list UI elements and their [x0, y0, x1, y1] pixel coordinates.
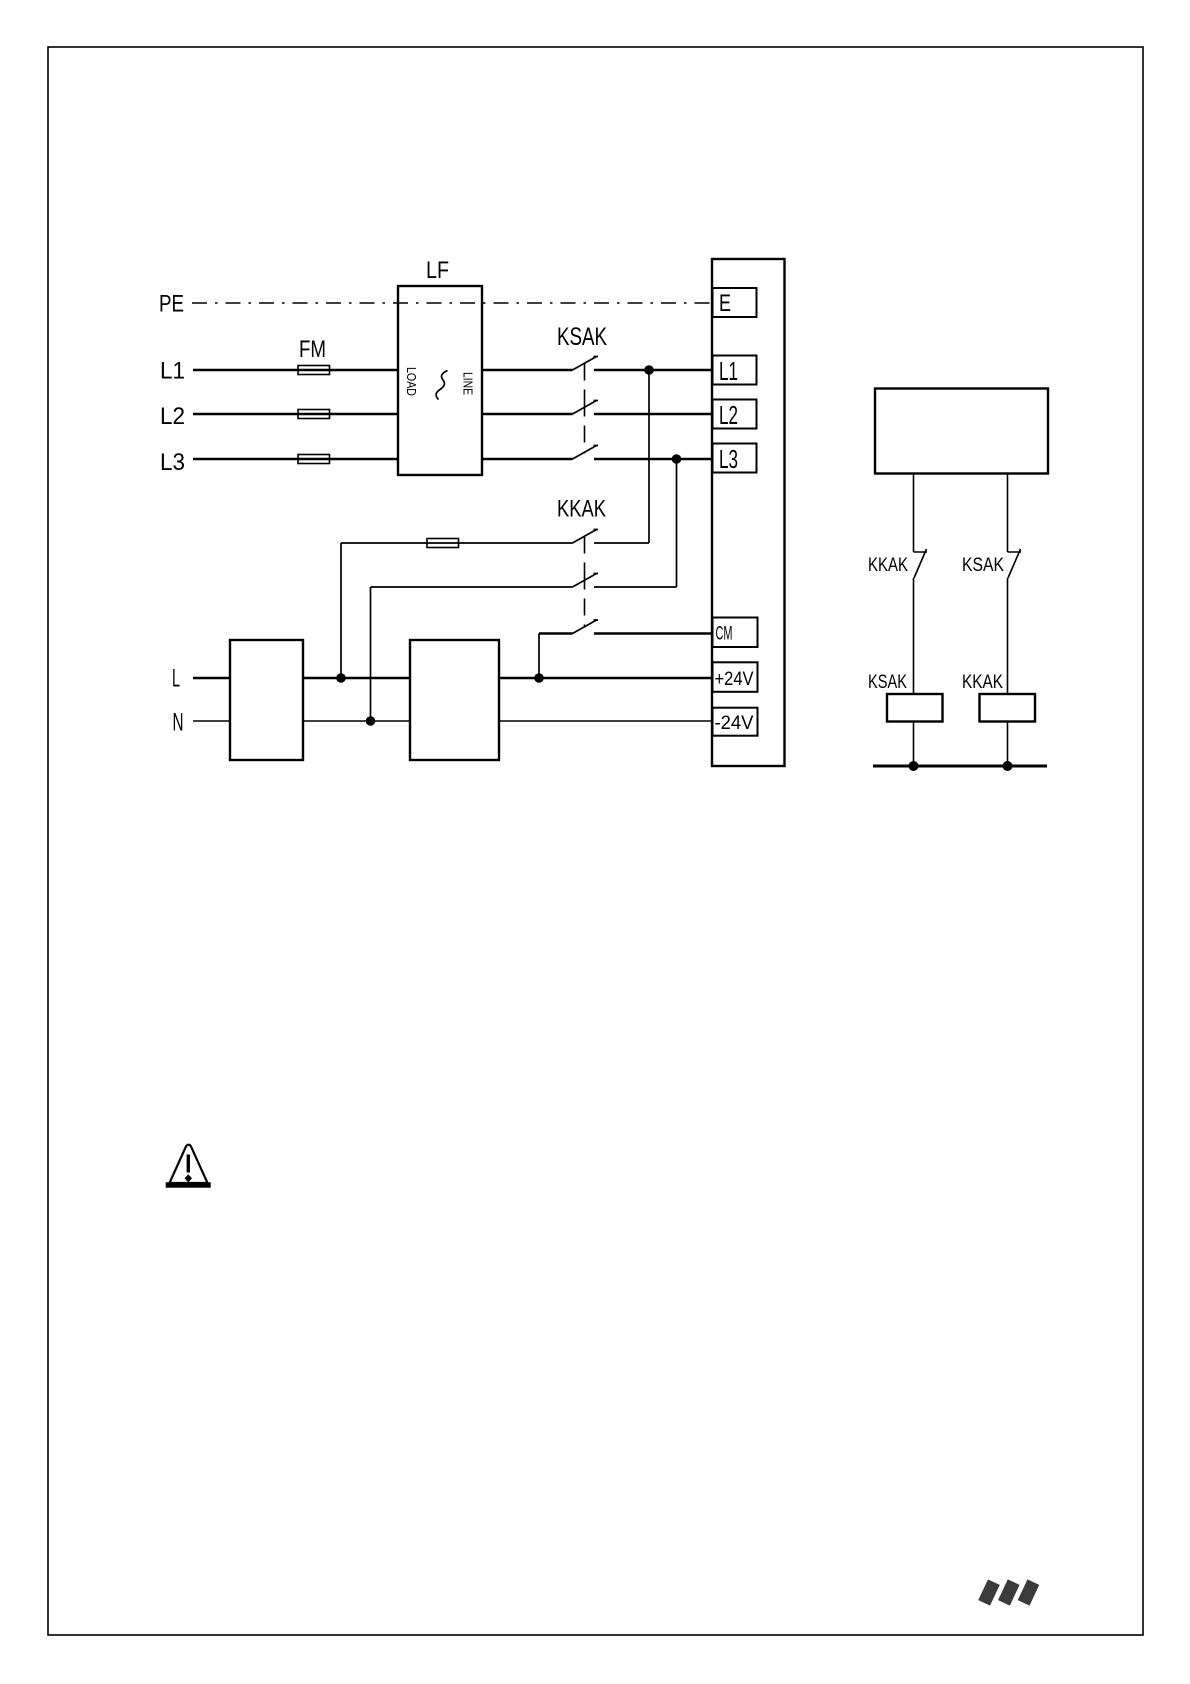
wire L [193, 677, 712, 680]
switch KSAK linkage dashed line [584, 364, 586, 454]
terminal CM box [713, 618, 758, 648]
wire coil KKAK to bus [1007, 722, 1009, 767]
coil KSAK box [887, 694, 943, 722]
junction node on N wire [366, 716, 376, 726]
junction node on L1 [644, 365, 654, 375]
svg-text:L1: L1 [160, 358, 185, 385]
coil KKAK box [980, 694, 1036, 722]
svg-text:-24V: -24V [715, 713, 754, 734]
wire KSAK contact to coil KKAK [1007, 578, 1009, 694]
fuse on KKAK row 1 [427, 539, 459, 548]
wire from L1 node down to KKAK row 1 [648, 370, 650, 543]
wire L1 [193, 369, 712, 372]
fuse FM on L1 [298, 366, 330, 375]
switch KSAK pole 1 blade [573, 357, 599, 371]
svg-text:+24V: +24V [715, 669, 754, 690]
wire controller to KKAK contact [913, 474, 915, 552]
wire KKAK contact to coil KSAK [913, 578, 915, 694]
warning triangle icon [166, 1145, 211, 1188]
svg-text:KSAK: KSAK [868, 672, 907, 693]
svg-text:L1: L1 [719, 356, 738, 386]
terminal L1 box [713, 356, 757, 385]
switch KKAK pole 3 blade [573, 620, 599, 634]
junction node on L3 [672, 454, 682, 464]
svg-text:PE: PE [159, 291, 184, 318]
junction node on L wire 1 [336, 673, 346, 683]
junction node on L wire 2 [534, 673, 544, 683]
line filter LF box [398, 286, 482, 475]
wire coil KSAK to bus [913, 722, 915, 767]
svg-text:KSAK: KSAK [962, 555, 1004, 576]
wire from L3 node down to KKAK row 2 [676, 459, 678, 587]
svg-text:L3: L3 [719, 444, 738, 474]
svg-text:FM: FM [299, 336, 326, 363]
svg-text:KSAK: KSAK [557, 323, 607, 351]
wire L3 [193, 458, 712, 461]
wire from KKAK row 2 down to N node [370, 587, 372, 721]
wire KKAK row 1 [341, 542, 649, 544]
wire controller to KSAK contact [1007, 474, 1009, 552]
terminal -24V box [713, 708, 758, 736]
svg-text:KKAK: KKAK [868, 555, 908, 576]
line filter LF tilde symbol [436, 371, 447, 400]
junction node bus left [909, 761, 919, 771]
switch KKAK pole 1 blade [573, 530, 599, 544]
switch KSAK pole 2 blade [573, 401, 599, 415]
svg-text:LF: LF [426, 257, 449, 284]
bus wire [873, 765, 1047, 768]
svg-text:LOAD: LOAD [404, 367, 419, 396]
wire from KKAK row 1 down to L node [340, 543, 342, 678]
terminal block outline [712, 259, 785, 766]
contact KKAK blade [914, 549, 928, 578]
wire L2 [193, 413, 712, 416]
power supply box 2 [410, 640, 499, 760]
switch KKAK pole 2 blade [573, 574, 599, 588]
svg-text:E: E [719, 290, 731, 317]
fuse FM on L3 [298, 455, 330, 464]
controller box [875, 389, 1048, 474]
svg-text:KKAK: KKAK [557, 496, 606, 523]
wire KKAK row 3 to CM [539, 632, 712, 635]
wire PE dash-dot [192, 302, 712, 304]
svg-text:L: L [172, 665, 180, 693]
svg-text:KKAK: KKAK [962, 672, 1003, 693]
svg-text:L2: L2 [160, 403, 185, 430]
terminal +24V box [713, 662, 758, 692]
junction node bus right [1003, 761, 1013, 771]
svg-text:L3: L3 [160, 449, 185, 476]
switch KKAK linkage dashed line [584, 537, 586, 628]
svg-text:LINE: LINE [461, 372, 476, 395]
fuse FM on L2 [298, 410, 330, 419]
terminal L3 box [713, 444, 757, 473]
svg-text:L2: L2 [719, 400, 738, 430]
svg-text:N: N [173, 709, 184, 737]
terminal L2 box [713, 400, 757, 429]
logo mark three parallelograms [978, 1579, 1039, 1605]
contact KSAK blade [1008, 549, 1022, 578]
power supply box 1 [230, 640, 303, 760]
terminal E box [713, 288, 757, 317]
switch KSAK pole 3 blade [573, 446, 599, 460]
wire N [193, 720, 712, 722]
svg-text:CM: CM [716, 624, 733, 645]
wire KKAK row 2 [371, 586, 677, 588]
wire from KKAK row 3 down to L node 2 [538, 634, 540, 679]
